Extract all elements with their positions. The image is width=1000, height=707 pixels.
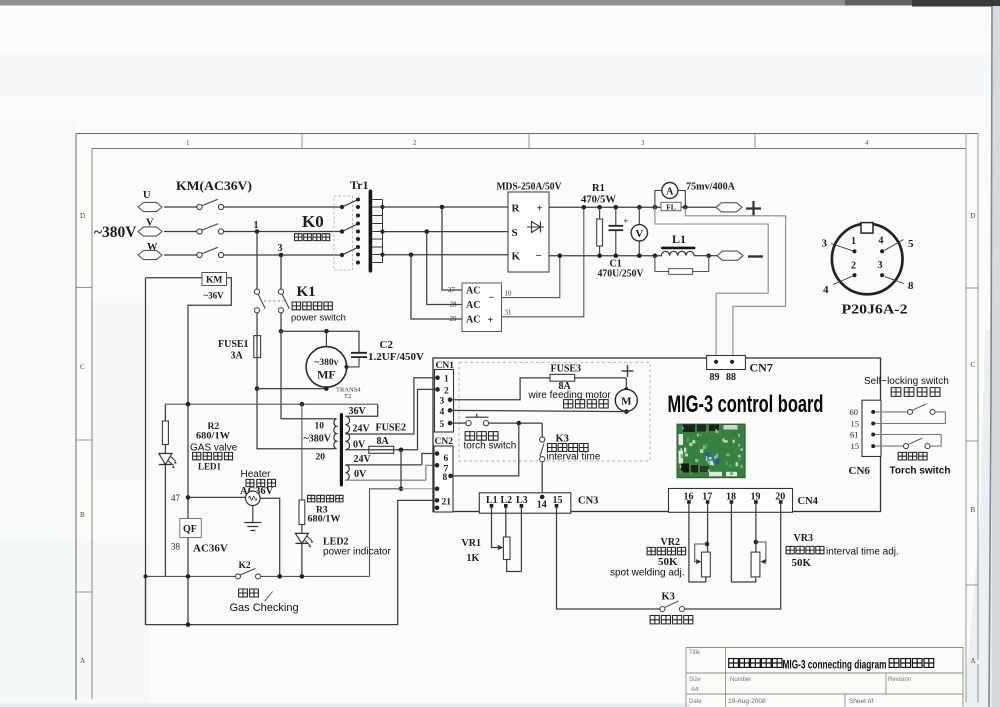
svg-text:2: 2	[851, 261, 856, 272]
svg-text:Sheet of: Sheet of	[849, 698, 873, 705]
svg-text:VR2: VR2	[661, 537, 680, 548]
K0 selector blade U	[340, 205, 344, 209]
output terminal +	[716, 203, 742, 212]
svg-text:R: R	[512, 203, 521, 215]
node 0V lower junction	[399, 487, 404, 492]
svg-text:1K: 1K	[467, 553, 480, 564]
T2 secondary coil 2	[345, 465, 349, 480]
svg-text:0V: 0V	[354, 469, 367, 480]
wire + rail	[549, 206, 716, 208]
svg-text:24V: 24V	[353, 424, 371, 435]
node R drop to AC27	[440, 205, 445, 210]
svg-text:B: B	[80, 511, 85, 519]
capacitor C1	[614, 205, 619, 210]
wire 36V distribution	[165, 403, 377, 405]
svg-text:R1: R1	[592, 183, 605, 194]
wire LED1 down	[164, 465, 166, 577]
svg-text:Torch switch: Torch switch	[890, 466, 951, 477]
svg-text:~36V: ~36V	[204, 291, 225, 301]
svg-text:~380v: ~380v	[314, 358, 338, 368]
svg-text:MDS-250A/50V: MDS-250A/50V	[497, 181, 562, 193]
heater right wire down	[260, 498, 280, 576]
right paper edge shadow	[988, 6, 1000, 707]
svg-text:20: 20	[316, 453, 326, 463]
svg-text:8A: 8A	[377, 436, 390, 447]
svg-text:CN7: CN7	[750, 361, 773, 375]
svg-text:~380V: ~380V	[304, 434, 332, 445]
svg-text:470/5W: 470/5W	[581, 195, 616, 206]
node 0V junction	[399, 448, 404, 453]
PCB photo MIG-3 board	[677, 424, 745, 478]
svg-text:AC: AC	[466, 300, 480, 311]
svg-text:89: 89	[710, 372, 720, 383]
rail A left	[145, 278, 147, 625]
svg-text:19-Aug-2008: 19-Aug-2008	[728, 698, 766, 705]
svg-text:4: 4	[823, 284, 829, 296]
svg-text:C: C	[971, 361, 976, 369]
node rail B bottom	[186, 622, 191, 627]
top scanner bar	[0, 0, 1000, 6]
svg-text:K1: K1	[297, 284, 316, 300]
svg-text:8: 8	[908, 280, 914, 292]
svg-text:AC: AC	[466, 315, 480, 326]
svg-text:LED1: LED1	[198, 462, 222, 472]
wire CN1 pin4 to motor	[450, 410, 626, 411]
K0 selector blade W	[340, 253, 344, 257]
svg-text:Gas Checking: Gas Checking	[230, 602, 299, 614]
wire K2 to gas loop	[261, 575, 370, 577]
svg-text:K0: K0	[302, 212, 324, 231]
aux rectifier AC box	[462, 283, 502, 332]
rectifier MDS box	[508, 192, 549, 272]
wire U phase	[164, 206, 197, 208]
connector P20J6A-2 body	[832, 224, 903, 295]
svg-text:Self−locking switch: Self−locking switch	[864, 376, 949, 387]
svg-text:A4: A4	[691, 687, 699, 693]
frame zone ticks top	[302, 134, 755, 149]
sheet frame inner	[92, 149, 966, 700]
connector CN6	[862, 400, 881, 456]
node 31 junction	[582, 205, 587, 210]
output terminal -	[709, 255, 717, 257]
svg-text:interval time adj.: interval time adj.	[826, 547, 899, 558]
Tr1 tap rungs	[372, 200, 382, 263]
svg-text:AC36V: AC36V	[193, 543, 228, 555]
svg-text:1: 1	[851, 236, 856, 247]
torch switch CN6	[875, 445, 903, 447]
svg-text:680/1W: 680/1W	[308, 515, 342, 525]
svg-text:torch switch: torch switch	[464, 441, 517, 452]
svg-text:6: 6	[444, 454, 449, 464]
svg-text:QF: QF	[183, 524, 197, 535]
svg-text:31: 31	[505, 309, 513, 317]
voltmeter V	[637, 205, 642, 210]
svg-text:3: 3	[641, 139, 645, 147]
wire FUSE1 node down to primary tap 20	[257, 389, 333, 449]
svg-text:interval time: interval time	[547, 452, 601, 463]
svg-text:−: −	[489, 293, 495, 304]
leader lines	[831, 240, 904, 285]
svg-text:AC: AC	[466, 286, 480, 297]
fan motor MF	[306, 347, 347, 388]
svg-text:29: 29	[450, 315, 458, 323]
svg-text:75mv/400A: 75mv/400A	[686, 181, 735, 193]
transformer T2 core	[340, 413, 343, 487]
svg-text:8: 8	[443, 473, 448, 483]
node FUSE1 bottom	[255, 386, 260, 391]
connector CN1	[435, 370, 454, 433]
svg-text:P20J6A-2: P20J6A-2	[842, 302, 908, 317]
fuse FUSE3	[550, 374, 575, 381]
switch K3 spot-weld time	[557, 508, 660, 610]
wire KM coil to rail B	[188, 278, 231, 405]
node 47	[186, 495, 191, 500]
svg-text:+: +	[488, 315, 494, 326]
resistor R2 chain top	[164, 404, 166, 421]
svg-text:C: C	[80, 363, 85, 371]
motor M	[625, 378, 627, 390]
wire W phase	[164, 254, 197, 256]
svg-text:CN4: CN4	[798, 496, 819, 507]
svg-text:61: 61	[850, 430, 859, 440]
wire K1 pole2 down to primary tap 10	[281, 331, 333, 419]
svg-text:K3: K3	[662, 592, 675, 603]
diode symbol inside MDS	[527, 226, 544, 228]
svg-text:MIG-3 connecting diagram: MIG-3 connecting diagram	[783, 659, 887, 671]
svg-text:CN3: CN3	[578, 495, 598, 506]
svg-text:FL: FL	[666, 202, 676, 211]
sheet frame right	[966, 134, 978, 703]
svg-text:MF: MF	[317, 368, 336, 382]
svg-text:Number: Number	[730, 677, 751, 683]
switch K1 pole 2	[280, 255, 282, 289]
svg-text:T2: T2	[344, 393, 351, 400]
connector CN7	[707, 356, 746, 370]
svg-text:1: 1	[186, 139, 190, 147]
svg-text:15: 15	[851, 419, 860, 429]
svg-text:A: A	[80, 657, 85, 665]
node rail B taps 36V	[186, 402, 191, 407]
wire rail A to KM coil	[146, 277, 203, 279]
wire U to Tr1	[224, 206, 342, 208]
sheet frame outer	[76, 134, 978, 701]
svg-text:V: V	[635, 228, 643, 240]
svg-text:28: 28	[450, 301, 458, 309]
PCB components	[699, 434, 702, 436]
Tr1 tap bus	[382, 200, 384, 263]
svg-text:M: M	[621, 396, 632, 408]
wire V to Tr1	[224, 231, 342, 233]
svg-text:470U/250V: 470U/250V	[598, 269, 645, 280]
node 1 on V phase	[255, 229, 260, 234]
pin 4	[880, 249, 884, 253]
svg-text:3: 3	[440, 397, 445, 407]
title block grid	[686, 648, 963, 707]
svg-text:VR1: VR1	[462, 538, 481, 549]
switch K1 pole 1	[256, 232, 258, 290]
svg-text:50K: 50K	[792, 557, 812, 569]
svg-text:10: 10	[505, 290, 513, 298]
K0 selector dashed box	[334, 196, 353, 270]
capacitor C2	[344, 365, 348, 369]
svg-text:W: W	[147, 242, 158, 253]
svg-text:38: 38	[171, 542, 181, 552]
svg-text:47: 47	[171, 493, 181, 503]
svg-text:GAS valve: GAS valve	[190, 443, 238, 454]
breaker QF box	[180, 519, 202, 538]
wire Tr1 to MDS R	[383, 206, 509, 208]
svg-text:C2: C2	[380, 339, 394, 351]
frame zone ticks left	[76, 288, 92, 593]
pin 3	[880, 273, 884, 277]
resistor R3 chain from node	[301, 404, 303, 500]
svg-text:L1: L1	[672, 232, 686, 246]
svg-text:CN1: CN1	[436, 361, 455, 371]
svg-text:Size: Size	[689, 677, 701, 683]
svg-text:24V: 24V	[354, 454, 372, 465]
sense wire 88 from shunt to CN7	[685, 207, 785, 355]
contactor coil KM box	[202, 273, 227, 286]
pin 2	[852, 273, 856, 277]
svg-text:5: 5	[440, 420, 445, 430]
svg-text:U: U	[143, 190, 151, 201]
dashed module box	[459, 362, 650, 461]
svg-text:4: 4	[865, 139, 869, 147]
node 3 on W phase	[279, 253, 284, 258]
wire CN1 pin3 to FUSE3	[450, 378, 626, 400]
svg-text:A: A	[666, 187, 674, 198]
ground under heater	[252, 506, 254, 522]
svg-text:36V: 36V	[349, 406, 367, 417]
bottom rail to CN2 pin21	[146, 500, 436, 624]
svg-text:+: +	[537, 203, 543, 215]
wire LED2 down to K2 wire	[301, 543, 303, 576]
svg-text:60: 60	[850, 407, 859, 417]
label 电压转换	[295, 234, 330, 241]
switch K3 interval	[541, 423, 543, 437]
wire 10: AC minus to K rail	[502, 256, 560, 298]
svg-text:50K: 50K	[658, 556, 678, 568]
svg-text:FUSE3: FUSE3	[551, 364, 582, 375]
svg-text:3: 3	[878, 260, 883, 271]
svg-text:21: 21	[442, 497, 452, 507]
svg-text:3: 3	[278, 243, 283, 254]
svg-text:1: 1	[444, 375, 449, 385]
svg-text:3: 3	[822, 238, 828, 250]
wire K1 right to MF top / C2	[279, 329, 284, 334]
node K drop to AC29	[409, 253, 414, 258]
Tr1 contact dots	[356, 198, 360, 202]
svg-text:~380V: ~380V	[94, 224, 137, 241]
svg-text:S: S	[512, 227, 518, 239]
label 电源开关	[292, 302, 332, 310]
T2 secondary coil 1	[345, 416, 349, 450]
pin 1	[852, 249, 856, 253]
connector CN2	[434, 446, 453, 512]
svg-text:FUSE2: FUSE2	[376, 423, 407, 434]
svg-text:3A: 3A	[231, 351, 244, 362]
connector key notch	[861, 223, 873, 234]
svg-text:FUSE1: FUSE1	[218, 339, 249, 350]
node S drop to AC28	[424, 229, 429, 234]
transformer T2 primary coil	[333, 419, 337, 449]
svg-text:KM: KM	[206, 276, 222, 286]
svg-text:CN2: CN2	[435, 437, 454, 447]
svg-text:4: 4	[879, 236, 884, 247]
wire Tr1 to MDS S	[383, 231, 509, 233]
sense wire 89 from + rail to CN7	[655, 207, 768, 355]
wire K2 row	[146, 575, 236, 577]
svg-text:power switch: power switch	[291, 313, 346, 324]
svg-text:0V: 0V	[353, 440, 366, 451]
frame zone ticks right	[966, 288, 978, 585]
wire CN2 pin8 up to torch	[451, 423, 519, 476]
svg-text:15: 15	[851, 441, 860, 451]
label 气阀指示	[193, 452, 233, 459]
label 枪开关 torch switch	[465, 432, 498, 441]
K1 gang dashed link	[264, 300, 286, 302]
svg-text:VR3: VR3	[794, 533, 813, 544]
svg-text:−: −	[536, 250, 542, 262]
L1 damping resistor loop	[655, 256, 709, 272]
connector CN3	[479, 493, 571, 513]
svg-text:A: A	[971, 657, 976, 665]
resistor R3	[299, 500, 305, 525]
svg-text:27: 27	[448, 286, 456, 294]
svg-text:K: K	[512, 251, 521, 263]
label 电源指示	[308, 495, 344, 502]
svg-text:Date: Date	[689, 699, 702, 705]
svg-text:14: 14	[537, 500, 547, 511]
svg-text:KM(AC36V): KM(AC36V)	[176, 178, 252, 193]
svg-text:2: 2	[413, 139, 417, 147]
svg-text:Revision: Revision	[888, 677, 911, 683]
svg-text:spot welding adj.: spot welding adj.	[610, 568, 685, 579]
bottom paper edge	[0, 704, 690, 707]
torch switch pushbutton	[450, 422, 466, 424]
wire W to Tr1	[224, 254, 342, 256]
LED LED2	[301, 525, 303, 534]
wire 0V to CN1 pin2	[418, 389, 436, 449]
fuse FUSE2	[369, 446, 394, 453]
wire junction to gas-check loop	[370, 489, 402, 577]
svg-text:10: 10	[315, 422, 325, 432]
heater element	[188, 496, 246, 498]
label 检气	[239, 589, 259, 597]
svg-text:680/1W: 680/1W	[196, 432, 231, 442]
shunt FL box	[661, 202, 681, 210]
svg-text:D: D	[80, 212, 85, 220]
LED LED1	[164, 445, 166, 454]
wire V phase	[164, 231, 197, 233]
svg-text:D: D	[971, 212, 976, 220]
wire - rail	[549, 255, 662, 257]
MIG-3 control board outline	[433, 358, 881, 512]
svg-text:K3: K3	[556, 434, 569, 445]
svg-text:1.2UF/450V: 1.2UF/450V	[368, 351, 424, 363]
svg-text:Tr1: Tr1	[350, 178, 368, 192]
transformer Tr1 core bar	[369, 190, 373, 273]
svg-text:+: +	[624, 217, 629, 226]
contactor KM pole U	[197, 204, 202, 209]
resistor R2	[162, 421, 168, 445]
contactor KM pole W	[197, 252, 202, 257]
plus mark motor	[622, 365, 634, 377]
svg-text:88: 88	[726, 372, 736, 383]
svg-text:power indicator: power indicator	[323, 547, 391, 558]
svg-text:5: 5	[908, 238, 914, 250]
svg-text:2: 2	[444, 386, 449, 396]
wire junction to CN2 mid pin	[401, 488, 436, 490]
svg-text:Heater: Heater	[241, 469, 272, 480]
title text 抽头线路板MIG-3 connecting diagram外接线图	[729, 659, 782, 668]
node R3 branch	[300, 402, 305, 407]
svg-text:B: B	[971, 506, 976, 514]
fuse FUSE1	[256, 313, 258, 389]
svg-text:CN6: CN6	[849, 465, 871, 477]
svg-text:Title: Title	[689, 650, 701, 656]
wire 0V junction down	[400, 450, 402, 489]
K0 selector blade V	[340, 229, 344, 233]
Tr1 output nodes	[380, 205, 384, 209]
wire 31: AC plus to + rail	[502, 207, 584, 316]
connector CN4	[669, 489, 793, 513]
svg-text:K2: K2	[239, 561, 251, 571]
contactor KM pole V	[197, 229, 202, 234]
wire Tr1 to MDS K	[383, 254, 509, 256]
wire FUSE1 node to MF bottom	[257, 388, 326, 390]
svg-text:MIG-3 control board: MIG-3 control board	[668, 391, 824, 418]
svg-text:4: 4	[440, 407, 445, 417]
rail B (KM coil return / QF)	[187, 404, 189, 624]
ammeter A with shunt FL	[653, 205, 658, 210]
svg-text:1: 1	[254, 220, 259, 231]
svg-text:R2: R2	[208, 422, 220, 432]
